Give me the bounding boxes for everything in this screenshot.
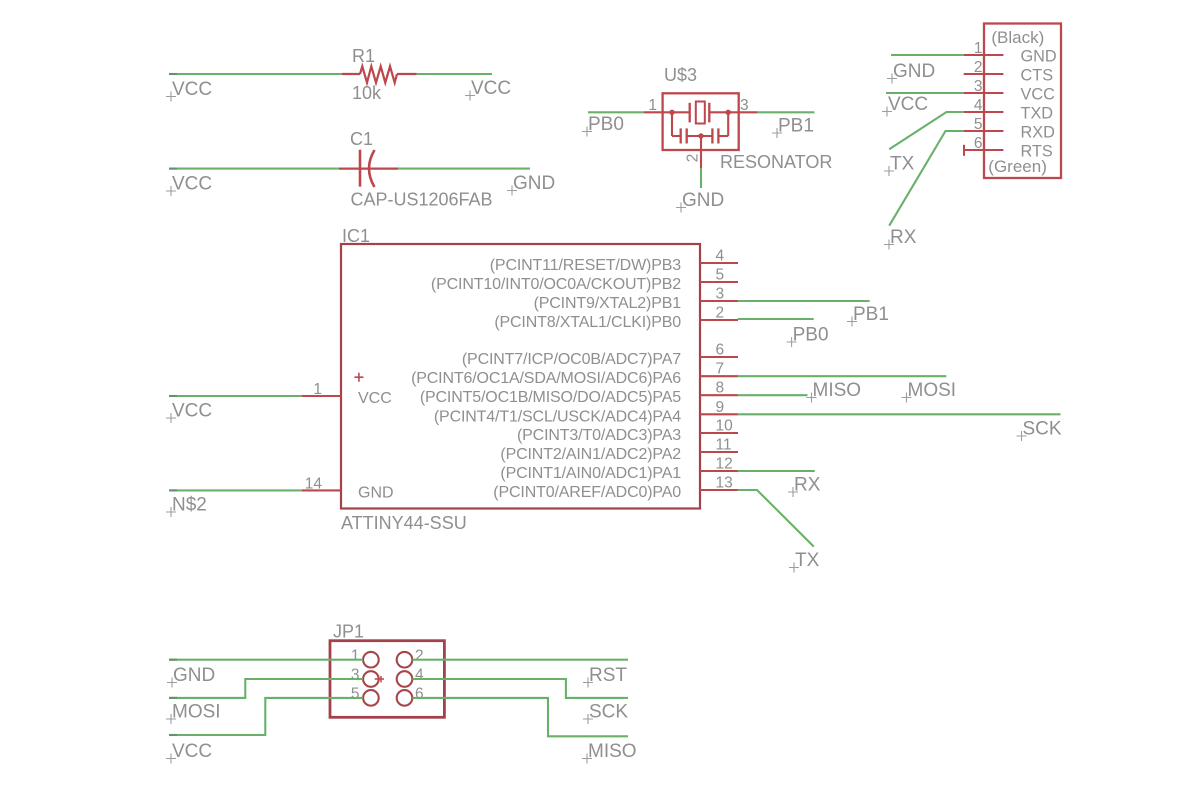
svg-text:(PCINT1/AIN0/ADC1)PA1: (PCINT1/AIN0/ADC1)PA1 — [500, 465, 681, 482]
svg-text:3: 3 — [740, 97, 749, 114]
svg-text:2: 2 — [415, 648, 424, 665]
svg-text:RX: RX — [794, 475, 821, 496]
svg-text:RESONATOR: RESONATOR — [720, 152, 832, 172]
svg-text:VCC: VCC — [1021, 85, 1056, 103]
svg-text:VCC: VCC — [358, 390, 392, 407]
svg-text:12: 12 — [716, 456, 733, 473]
svg-text:10: 10 — [716, 418, 734, 435]
svg-text:(Black): (Black) — [991, 28, 1044, 47]
svg-text:1: 1 — [648, 97, 657, 114]
svg-text:(PCINT3/T0/ADC3)PA3: (PCINT3/T0/ADC3)PA3 — [517, 427, 681, 444]
svg-text:R1: R1 — [352, 46, 375, 66]
svg-text:(PCINT11/RESET/DW)PB3: (PCINT11/RESET/DW)PB3 — [490, 257, 682, 274]
svg-text:GND: GND — [358, 484, 394, 501]
svg-text:10k: 10k — [352, 83, 382, 103]
svg-text:4: 4 — [974, 97, 983, 114]
svg-text:CAP-US1206FAB: CAP-US1206FAB — [351, 190, 493, 210]
svg-text:11: 11 — [716, 437, 732, 454]
svg-text:VCC: VCC — [888, 94, 928, 115]
svg-text:(PCINT2/AIN1/ADC2)PA2: (PCINT2/AIN1/ADC2)PA2 — [500, 446, 681, 463]
svg-text:PB1: PB1 — [778, 116, 814, 137]
svg-text:1: 1 — [313, 381, 322, 398]
svg-text:TXD: TXD — [1021, 104, 1054, 122]
svg-text:1: 1 — [351, 648, 360, 665]
svg-text:8: 8 — [716, 380, 725, 397]
svg-text:(PCINT7/ICP/OC0B/ADC7)PA7: (PCINT7/ICP/OC0B/ADC7)PA7 — [462, 351, 681, 368]
svg-text:2: 2 — [716, 305, 725, 322]
svg-text:(PCINT10/INT0/OC0A/CKOUT)PB2: (PCINT10/INT0/OC0A/CKOUT)PB2 — [431, 276, 681, 293]
svg-text:3: 3 — [716, 286, 725, 303]
svg-text:VCC: VCC — [172, 79, 212, 100]
svg-text:VCC: VCC — [172, 174, 212, 195]
svg-text:RX: RX — [890, 227, 917, 248]
svg-text:MOSI: MOSI — [908, 380, 957, 401]
svg-text:6: 6 — [716, 342, 725, 359]
svg-text:RXD: RXD — [1021, 123, 1055, 141]
svg-text:GND: GND — [513, 173, 555, 194]
svg-text:GND: GND — [173, 665, 215, 686]
svg-text:2: 2 — [685, 154, 702, 163]
svg-text:3: 3 — [351, 667, 360, 684]
svg-text:4: 4 — [716, 248, 725, 265]
svg-text:7: 7 — [716, 361, 725, 378]
svg-text:TX: TX — [890, 154, 915, 175]
svg-text:(Green): (Green) — [988, 157, 1047, 176]
svg-text:GND: GND — [893, 61, 935, 82]
svg-text:SCK: SCK — [589, 702, 628, 723]
svg-text:5: 5 — [351, 686, 360, 703]
svg-text:SCK: SCK — [1023, 419, 1062, 440]
svg-text:4: 4 — [415, 667, 424, 684]
svg-text:GND: GND — [1021, 47, 1057, 65]
svg-text:13: 13 — [716, 475, 733, 492]
svg-text:5: 5 — [716, 267, 725, 284]
svg-text:U$3: U$3 — [664, 65, 697, 85]
svg-text:5: 5 — [974, 116, 983, 133]
svg-text:ATTINY44-SSU: ATTINY44-SSU — [341, 513, 467, 533]
svg-text:14: 14 — [305, 475, 323, 492]
svg-text:PB0: PB0 — [793, 325, 829, 346]
svg-text:N$2: N$2 — [172, 495, 207, 516]
svg-text:6: 6 — [415, 686, 424, 703]
svg-text:2: 2 — [974, 59, 983, 76]
svg-text:PB0: PB0 — [588, 114, 624, 135]
svg-text:(PCINT0/AREF/ADC0)PA0: (PCINT0/AREF/ADC0)PA0 — [493, 484, 681, 501]
svg-text:(PCINT6/OC1A/SDA/MOSI/ADC6)PA6: (PCINT6/OC1A/SDA/MOSI/ADC6)PA6 — [411, 370, 681, 387]
svg-text:CTS: CTS — [1021, 66, 1054, 84]
svg-text:MISO: MISO — [813, 380, 862, 401]
svg-text:IC1: IC1 — [342, 226, 370, 246]
svg-text:(PCINT8/XTAL1/CLKI)PB0: (PCINT8/XTAL1/CLKI)PB0 — [494, 314, 681, 331]
svg-text:(PCINT4/T1/SCL/USCK/ADC4)PA4: (PCINT4/T1/SCL/USCK/ADC4)PA4 — [434, 408, 681, 425]
svg-text:(PCINT5/OC1B/MISO/DO/ADC5)PA5: (PCINT5/OC1B/MISO/DO/ADC5)PA5 — [420, 389, 681, 406]
svg-text:JP1: JP1 — [333, 622, 364, 642]
svg-text:MOSI: MOSI — [172, 702, 221, 723]
svg-text:VCC: VCC — [172, 401, 212, 422]
svg-text:MISO: MISO — [588, 741, 637, 762]
svg-text:3: 3 — [974, 78, 983, 95]
svg-text:VCC: VCC — [471, 78, 511, 99]
svg-text:RST: RST — [589, 665, 627, 686]
svg-text:9: 9 — [716, 399, 725, 416]
svg-text:1: 1 — [974, 40, 983, 57]
svg-text:GND: GND — [682, 190, 724, 211]
svg-text:PB1: PB1 — [853, 304, 889, 325]
svg-text:VCC: VCC — [172, 741, 212, 762]
svg-text:C1: C1 — [350, 129, 373, 149]
svg-text:6: 6 — [974, 135, 983, 152]
svg-text:TX: TX — [795, 550, 820, 571]
svg-text:(PCINT9/XTAL2)PB1: (PCINT9/XTAL2)PB1 — [534, 295, 682, 312]
